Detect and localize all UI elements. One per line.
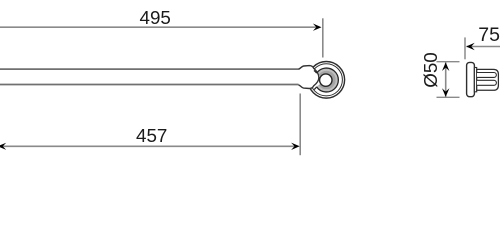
mount outer circle [308, 62, 345, 99]
C-clip gray ring body outer band [317, 69, 337, 90]
dimension line 495 [0, 26, 319, 28]
rod bottom edge [0, 84, 299, 86]
mount inner circle [310, 64, 342, 96]
side view: dimension line 75 [467, 46, 500, 48]
arrowhead down of diameter 50 [442, 88, 449, 97]
svg-text:495: 495 [140, 7, 171, 28]
C-clip gray ring body inner band [320, 72, 334, 87]
side view: prong block outer capsule [477, 69, 499, 90]
svg-text:75: 75 [478, 24, 500, 46]
extension line at rod end (457) [299, 94, 301, 156]
arrowhead right of 457 dimension [291, 143, 300, 150]
C-clip outer outline [317, 68, 339, 92]
C-clip lower tip flare [314, 87, 317, 90]
side view: dimension line diameter 50 [445, 62, 447, 97]
rod top edge [0, 68, 299, 70]
extension line at mount centre (495) [322, 18, 324, 57]
rod end knob fill [299, 66, 319, 89]
arrowhead left of 457 dimension [0, 143, 6, 150]
rod end knob outline [299, 66, 319, 89]
svg-text:457: 457 [136, 125, 167, 146]
dimension line 457 [0, 145, 297, 147]
C-clip centre hole [320, 74, 332, 86]
side view: upper extension line for diameter 50 [437, 61, 460, 63]
side view: lower slot capsule [477, 80, 497, 85]
arrowhead left of 75 dimension [466, 43, 475, 50]
C-clip upper tip flare [314, 71, 317, 74]
arrowhead up of diameter 50 [442, 62, 449, 71]
side view: extension line for 75 [464, 37, 466, 59]
side view: lower extension line for diameter 50 [437, 96, 460, 98]
arrowhead right of 495 dimension [313, 24, 322, 31]
side view: hub collar [474, 68, 476, 92]
side view: upper slot capsule [477, 73, 496, 78]
side view: wall plate edge [467, 62, 475, 96]
svg-text:Ø50: Ø50 [420, 52, 441, 88]
